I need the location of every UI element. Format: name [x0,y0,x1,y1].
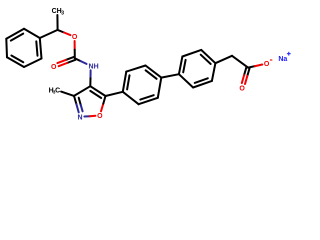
bond CH-phenyl [40,30,58,38]
svg-text:O: O [72,34,78,41]
bond CH3-CH methyl stub [56,15,58,30]
double bond C=O carbamate [66,57,74,60]
svg-text:O: O [239,85,245,92]
chemical structure drawing [0,0,300,127]
svg-text:O: O [51,64,57,71]
isoxazole C4-C3 [74,86,90,96]
biphenyl link bond [161,74,179,77]
isoxazole O1-C5 [101,104,103,112]
bond H3C-C3 [61,92,74,96]
svg-text:Na: Na [278,56,287,63]
bond C-NH [75,58,81,61]
benzene ring 1 [123,72,127,92]
bond CH-O ester [58,30,64,33]
bond ring2-CH2 [215,56,232,63]
isoxazole C5=C4 double [90,86,105,96]
bond O ester-C carbonyl [74,41,76,50]
bond C5-ring1 [106,92,123,96]
svg-text:C: C [55,88,60,95]
svg-text:O: O [264,61,270,68]
phenyl ring A [24,29,40,38]
isoxazole N2-O1 [84,115,90,117]
svg-text:N: N [77,115,82,122]
double bond C=O acetate [244,67,246,75]
bond CH2-COO [232,56,248,68]
bond NH-C4 [90,70,92,78]
superscript minus [270,59,272,61]
benzene ring 2 [179,57,183,75]
svg-text:3: 3 [61,10,64,16]
svg-text:O: O [97,113,103,120]
svg-text:NH: NH [89,63,99,70]
isoxazole C3=N2 double [74,96,76,104]
bond C-O minus [248,66,255,68]
